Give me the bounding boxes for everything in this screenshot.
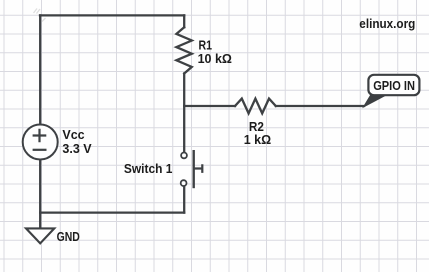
voltage source V1 xyxy=(23,125,58,160)
svg-text:R2: R2 xyxy=(249,120,264,134)
wire below switch xyxy=(183,186,185,213)
svg-text:1 kΩ: 1 kΩ xyxy=(244,133,271,147)
faint smudge artifact near top-left corner xyxy=(34,9,46,22)
svg-text:Vcc: Vcc xyxy=(62,128,84,142)
switch S1 (Switch 1 pushbutton) xyxy=(181,150,203,188)
wire left vertical lower xyxy=(39,159,41,227)
wire junction down to switch xyxy=(183,106,185,152)
wire bottom horizontal xyxy=(40,211,184,213)
svg-text:Switch 1: Switch 1 xyxy=(124,162,173,176)
node GPIO IN callout tail xyxy=(364,95,388,108)
svg-text:GPIO IN: GPIO IN xyxy=(373,78,415,93)
node GPIO IN callout box xyxy=(368,75,419,95)
wire R1 top lead xyxy=(183,15,185,27)
ground xyxy=(26,228,54,243)
wire left vertical upper xyxy=(39,15,41,124)
resistor R2 xyxy=(235,99,276,114)
wire R2 to GPIO node xyxy=(276,105,364,107)
svg-text:R1: R1 xyxy=(199,39,213,53)
wire junction to R2 xyxy=(184,105,235,107)
svg-text:elinux.org: elinux.org xyxy=(359,17,415,31)
svg-text:3.3 V: 3.3 V xyxy=(62,142,92,156)
wire top horizontal xyxy=(40,14,184,16)
resistor R1 xyxy=(176,27,191,73)
svg-text:GND: GND xyxy=(57,230,80,244)
svg-text:10 kΩ: 10 kΩ xyxy=(198,52,232,66)
wire R1 bottom lead to junction xyxy=(183,74,185,107)
